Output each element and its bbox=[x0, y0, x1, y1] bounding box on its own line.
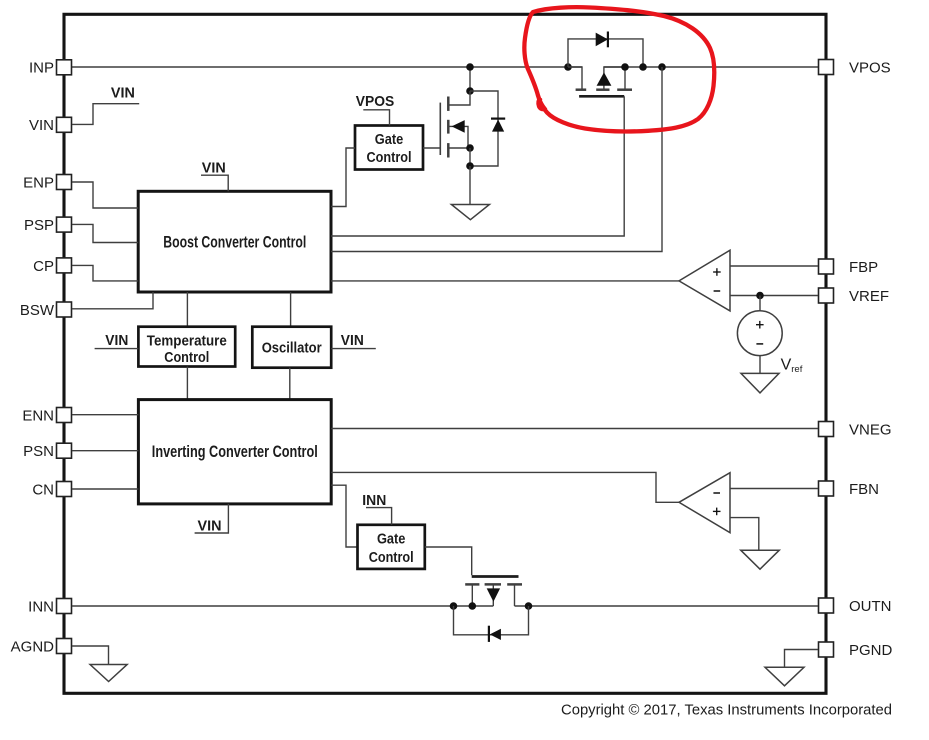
svg-text:Control: Control bbox=[164, 350, 209, 366]
ground (PGND) bbox=[765, 667, 804, 686]
svg-text:CN: CN bbox=[32, 481, 54, 498]
node VREF tap bbox=[756, 292, 764, 300]
pin CP bbox=[57, 258, 72, 273]
svg-text:Vref: Vref bbox=[781, 356, 803, 375]
pin BSW bbox=[57, 302, 72, 317]
node D3 left bbox=[450, 602, 458, 610]
wire rail to Q2 drain node bbox=[469, 67, 471, 91]
ground (Q2 source) bbox=[451, 205, 489, 220]
pin ENP bbox=[57, 175, 72, 190]
annotation red circle around Q1 bbox=[524, 7, 714, 131]
svg-text:VIN: VIN bbox=[202, 160, 226, 177]
wire oscillator to inverting control bbox=[289, 368, 291, 400]
svg-text:ENP: ENP bbox=[23, 174, 54, 191]
pin AGND bbox=[57, 639, 72, 654]
pin VIN bbox=[57, 117, 72, 132]
pin FBN bbox=[819, 481, 834, 496]
node Q2 source bbox=[466, 144, 474, 152]
diode D1 (across Q1) bbox=[568, 39, 643, 67]
pin VREF bbox=[819, 288, 834, 303]
wire VPOS rail (right segment) bbox=[604, 66, 818, 68]
wire OUTN rail (right segment) bbox=[515, 605, 819, 607]
block Oscillator bbox=[252, 327, 331, 368]
svg-text:FBP: FBP bbox=[849, 259, 878, 276]
ground (AGND) bbox=[90, 665, 127, 682]
pin VNEG bbox=[819, 422, 834, 437]
wire INN pin rail (left segment) bbox=[72, 605, 493, 607]
wire VIN to inverting control bottom bbox=[195, 504, 229, 533]
svg-text:VPOS: VPOS bbox=[849, 59, 891, 76]
svg-text:VIN: VIN bbox=[341, 332, 364, 349]
svg-text:PGND: PGND bbox=[849, 642, 893, 659]
svg-text:Boost Converter Control: Boost Converter Control bbox=[163, 233, 306, 252]
svg-text:INN: INN bbox=[28, 598, 54, 615]
pin PSP bbox=[57, 217, 72, 232]
wire PSN bbox=[72, 450, 138, 452]
pin VPOS bbox=[819, 60, 834, 75]
wire rail sense to boost control bbox=[331, 67, 662, 252]
op-amp U2 (inverting error comparator) bbox=[679, 473, 730, 533]
svg-text:VIN: VIN bbox=[105, 332, 128, 349]
node rail to boost sense bbox=[658, 63, 666, 71]
diode D3 (across Q3) bbox=[454, 606, 529, 635]
svg-text:Oscillator: Oscillator bbox=[262, 340, 322, 356]
wire INN label to gate control 2 top bbox=[366, 508, 392, 525]
pin INN bbox=[57, 599, 72, 614]
wire FBP pin to U1 + input bbox=[730, 265, 818, 267]
wire CP to boost bbox=[72, 265, 138, 281]
block Temperature Control bbox=[138, 327, 235, 367]
node Q1 drain bbox=[621, 63, 629, 71]
diode D2 (across Q2) bbox=[470, 91, 498, 166]
wire inverting to U2 output bbox=[331, 472, 679, 502]
pin ENN bbox=[57, 408, 72, 423]
gate bar Q1 bbox=[579, 95, 624, 98]
ground (U2) bbox=[741, 550, 780, 569]
pin INP bbox=[57, 60, 72, 75]
wire U2 + input to ground bbox=[730, 518, 759, 551]
svg-text:PSN: PSN bbox=[23, 443, 54, 460]
wire Vref to ground bbox=[759, 356, 761, 374]
svg-text:VIN: VIN bbox=[198, 518, 222, 535]
wire ENP to boost bbox=[72, 182, 138, 208]
svg-text:INP: INP bbox=[29, 60, 54, 77]
svg-text:Temperature: Temperature bbox=[147, 333, 227, 349]
wire VREF pin to U1 - input bbox=[730, 295, 818, 297]
svg-text:Control: Control bbox=[369, 550, 414, 566]
wire CN bbox=[72, 488, 138, 490]
pin CN bbox=[57, 482, 72, 497]
node D3 right bbox=[525, 602, 533, 610]
svg-text:AGND: AGND bbox=[11, 638, 55, 655]
svg-text:INN: INN bbox=[362, 492, 386, 509]
ground (Vref) bbox=[741, 373, 779, 393]
voltage source Vref bbox=[759, 296, 761, 311]
node Q3 source bbox=[469, 602, 477, 610]
pin PGND bbox=[819, 642, 834, 657]
svg-text:VIN: VIN bbox=[111, 84, 135, 101]
svg-text:CP: CP bbox=[33, 258, 54, 275]
IC boundary bbox=[64, 14, 826, 693]
wire VIN to temperature control bbox=[95, 348, 139, 350]
gate bar Q3 bbox=[472, 575, 519, 578]
svg-text:Copyright © 2017, Texas Instru: Copyright © 2017, Texas Instruments Inco… bbox=[561, 702, 892, 719]
svg-text:Control: Control bbox=[367, 150, 412, 166]
svg-text:PSP: PSP bbox=[24, 217, 54, 234]
node rail-diode left bbox=[564, 63, 572, 71]
block Inverting Converter Control bbox=[138, 400, 331, 504]
wire VIN pin to VIN net bbox=[72, 104, 139, 125]
node Q2 source to ground bbox=[466, 162, 474, 170]
wire inverting to gate control 2 bbox=[331, 485, 357, 547]
node Q2 drain bbox=[466, 63, 474, 71]
wire temperature control to inverting control bbox=[186, 367, 188, 400]
wire boost to gate control input bbox=[331, 148, 355, 207]
svg-text:Gate: Gate bbox=[377, 532, 406, 548]
svg-text:Gate: Gate bbox=[375, 132, 404, 148]
svg-text:FBN: FBN bbox=[849, 481, 879, 498]
svg-text:VNEG: VNEG bbox=[849, 421, 892, 438]
block Gate Control (inverting) bbox=[358, 525, 425, 569]
wire PSP to boost bbox=[72, 224, 138, 242]
wire AGND to ground bbox=[72, 646, 109, 665]
wire boost to comparator U1 output bbox=[331, 280, 679, 282]
wire ENN bbox=[72, 414, 138, 416]
wire boost to temperature control bbox=[186, 292, 188, 327]
svg-text:VIN: VIN bbox=[29, 117, 54, 134]
wire BSW to boost bottom bbox=[72, 292, 153, 309]
wire PGND to ground bbox=[785, 650, 819, 668]
transistor Q2 (boost rectifier PMOS) bbox=[448, 91, 470, 105]
wire boost to oscillator bbox=[290, 292, 292, 327]
wire oscillator to VIN bbox=[331, 348, 376, 350]
op-amp U1 (boost error comparator) bbox=[679, 250, 730, 311]
svg-text:VREF: VREF bbox=[849, 288, 889, 305]
wire FBN pin to U2 - input bbox=[730, 488, 818, 490]
transistor Q3 (inverting switch) bbox=[465, 583, 479, 586]
svg-text:OUTN: OUTN bbox=[849, 598, 892, 615]
pin PSN bbox=[57, 443, 72, 458]
node rail-diode right bbox=[639, 63, 647, 71]
transistor Q1 (boost switch) bbox=[568, 67, 582, 89]
svg-text:VPOS: VPOS bbox=[356, 93, 395, 110]
pin OUTN bbox=[819, 598, 834, 613]
pin FBP bbox=[819, 259, 834, 274]
svg-text:Inverting Converter Control: Inverting Converter Control bbox=[152, 442, 318, 461]
block Gate Control (boost) bbox=[355, 126, 423, 170]
wire Q1 gate to boost control bbox=[331, 96, 624, 236]
wire VIN to boost box top bbox=[201, 175, 228, 191]
svg-text:BSW: BSW bbox=[20, 302, 55, 319]
svg-text:ENN: ENN bbox=[22, 407, 54, 424]
wire inverting to VNEG pin bbox=[331, 428, 818, 430]
wire VPOS to gate control top bbox=[363, 110, 389, 126]
block Boost Converter Control bbox=[138, 191, 331, 292]
wire gate control to Q2 gate bbox=[423, 147, 440, 149]
wire gate control 2 to Q3 gate bbox=[425, 547, 472, 575]
wire INP to VPOS rail (left segment) bbox=[72, 66, 582, 68]
